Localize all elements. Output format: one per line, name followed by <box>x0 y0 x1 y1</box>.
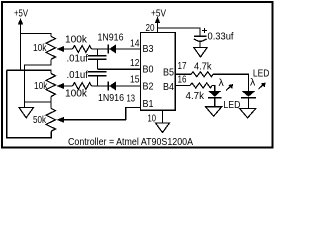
svg-text:+5V: +5V <box>14 8 28 20</box>
wire node A to U1 pin 14 <box>92 48 141 50</box>
wire U1 pin 16 <box>175 85 190 87</box>
pin 10 label <box>148 113 157 125</box>
svg-text:1N916: 1N916 <box>98 92 124 104</box>
ground LED2 <box>240 109 256 118</box>
R3 value label <box>33 114 47 126</box>
wire R2 bottom to gnd rail <box>50 97 52 109</box>
resistor R4 100k <box>73 46 92 53</box>
svg-text:1N916: 1N916 <box>98 31 124 43</box>
svg-text:13: 13 <box>127 93 136 105</box>
svg-text:0.33uf: 0.33uf <box>208 31 234 43</box>
wire R7 to LED1 <box>212 86 215 92</box>
potentiometer R2 10k body <box>46 74 56 97</box>
pin 10 stub <box>162 110 164 123</box>
D2 value label <box>98 92 124 104</box>
C1 value label <box>67 53 89 65</box>
diode D1 1N916 <box>109 44 116 53</box>
svg-text:B5: B5 <box>163 67 174 79</box>
wire to pot R1 top <box>21 34 52 37</box>
svg-text:100k: 100k <box>65 34 88 46</box>
svg-text:17: 17 <box>178 60 187 72</box>
LED1 <box>208 91 221 97</box>
svg-text:10k: 10k <box>34 80 48 92</box>
U1 port label B1 <box>143 98 154 110</box>
resistor R5 100k <box>73 83 92 90</box>
pin 20 label <box>146 22 155 34</box>
svg-text:LED: LED <box>223 99 240 111</box>
wire R1 bottom <box>25 59 51 108</box>
svg-text:4.7k: 4.7k <box>194 60 212 72</box>
svg-text:4.7k: 4.7k <box>186 90 205 102</box>
ground pot gnd <box>19 108 34 118</box>
LED2 lambda arrow <box>250 77 256 89</box>
R6 value label <box>194 60 212 72</box>
U1 port label B4 <box>163 81 174 93</box>
svg-text:LED: LED <box>253 68 270 80</box>
svg-text:20: 20 <box>146 22 155 34</box>
C2 value label <box>67 69 89 81</box>
LED2 <box>242 91 256 97</box>
pin 13 label <box>127 93 136 105</box>
wire R3 bottom <box>7 70 52 138</box>
potentiometer R1 10k body <box>46 36 56 59</box>
svg-text:15: 15 <box>130 74 140 86</box>
wire +5V rail vertical <box>20 34 22 71</box>
R3 wiper arrow <box>62 119 126 121</box>
R7 value label <box>186 90 205 102</box>
resistor R7 4.7k <box>190 83 212 88</box>
U1 port label B3 <box>143 43 154 55</box>
svg-text:λ: λ <box>219 77 225 89</box>
wire +5V rail to pot R2 top <box>7 70 52 73</box>
svg-text:100k: 100k <box>65 88 88 100</box>
LED2 label <box>253 68 270 80</box>
pin 14 label <box>130 37 140 49</box>
+5V supply label top <box>151 8 166 20</box>
R2 wiper arrow <box>62 85 73 87</box>
D1 value label <box>98 31 124 43</box>
IC U1 AT90S1200 <box>141 33 176 111</box>
potentiometer R3 50k body <box>46 108 56 131</box>
capacitor C2 .01uf <box>88 71 107 73</box>
capacitor C1 .01uf <box>97 49 99 55</box>
pin 12 label <box>130 57 140 69</box>
+5V supply label left <box>14 8 28 20</box>
svg-text:12: 12 <box>130 57 140 69</box>
svg-text:Controller = Atmel AT90S1200A: Controller = Atmel AT90S1200A <box>68 136 193 148</box>
svg-text:14: 14 <box>130 37 140 49</box>
R1 wiper arrow <box>62 48 73 50</box>
svg-text:λ: λ <box>250 77 256 89</box>
svg-text:16: 16 <box>178 74 187 86</box>
U1 port label B5 <box>163 67 174 79</box>
C3 plus sign <box>202 30 207 32</box>
ground C3 <box>194 48 207 58</box>
svg-text:10k: 10k <box>33 42 47 54</box>
svg-text:B0: B0 <box>143 64 154 76</box>
wire node B to U1 pin 15 <box>92 85 141 87</box>
ground LED1 <box>206 107 222 116</box>
svg-text:+5V: +5V <box>151 8 166 20</box>
svg-text:B1: B1 <box>143 98 154 110</box>
wire +5V to C3 <box>158 28 201 36</box>
U1 port label B2 <box>143 81 154 93</box>
diode D2 1N916 <box>109 81 116 90</box>
wire gnd node horizontal <box>25 101 51 103</box>
wire U1 pin 12 <box>98 68 141 70</box>
svg-text:.01uf: .01uf <box>67 53 89 65</box>
svg-text:50k: 50k <box>33 114 47 126</box>
pin 17 label <box>178 60 187 72</box>
+5V arrow top <box>157 22 159 28</box>
+5V arrow left <box>20 23 22 34</box>
R2 value label <box>34 80 48 92</box>
wire U1 pin 17 <box>175 73 191 75</box>
pin 16 label <box>178 74 187 86</box>
wire R3 wiper to U1 pin 13 <box>126 108 141 120</box>
ground U1 pin 10 <box>156 123 170 133</box>
LED1 label <box>223 99 240 111</box>
svg-text:.01uf: .01uf <box>67 69 89 81</box>
LED1 lambda arrow <box>219 77 225 89</box>
wire R6 to LED2 <box>213 74 249 91</box>
svg-text:B3: B3 <box>143 43 154 55</box>
U1 port label B0 <box>143 64 154 76</box>
capacitor C3 0.33uf polarized <box>194 35 207 37</box>
pin 15 label <box>130 74 140 86</box>
C3 value label <box>208 31 234 43</box>
R5 value label <box>65 88 88 100</box>
resistor R6 4.7k <box>191 72 213 77</box>
svg-text:B2: B2 <box>143 81 154 93</box>
svg-text:B4: B4 <box>163 81 174 93</box>
caption text <box>68 136 193 148</box>
pin 20 stub <box>157 28 159 33</box>
border frame <box>2 2 273 148</box>
R1 value label <box>33 42 47 54</box>
R4 value label <box>65 34 88 46</box>
